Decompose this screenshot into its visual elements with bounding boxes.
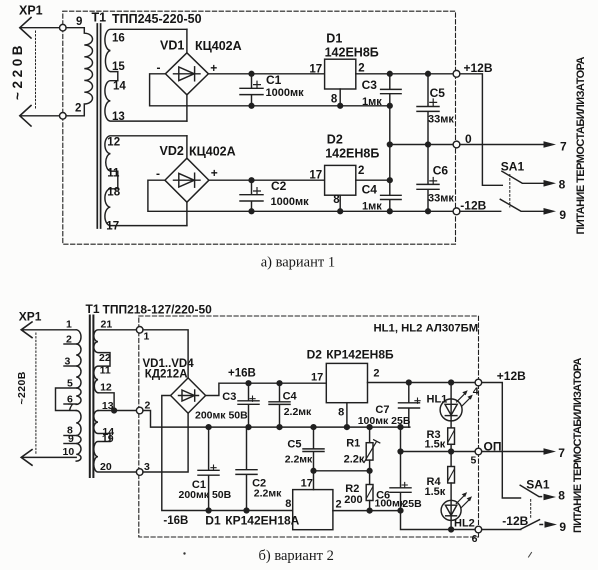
resistor R4 1.5к xyxy=(425,452,455,501)
capacitor C2 1000мк xyxy=(240,178,309,214)
regulator D2 КР142ЕН8Б (variant 2) xyxy=(307,348,394,419)
svg-text:HL1: HL1 xyxy=(427,393,448,405)
wire bridge plus to D1 xyxy=(208,73,324,75)
wire bridge minus to -12 rail xyxy=(148,180,453,211)
svg-text:-: - xyxy=(156,167,160,181)
svg-text:КЦ402А: КЦ402А xyxy=(189,145,236,159)
svg-text:25В: 25В xyxy=(402,498,422,510)
resistor R2 200 xyxy=(344,471,373,513)
capacitor C6 100мк 25В xyxy=(375,482,476,529)
wire D2 pin 8 down xyxy=(339,195,341,211)
wire node 1 to bridge top xyxy=(143,330,188,378)
svg-text:С2: С2 xyxy=(271,179,287,193)
jumper pin5 to pin7 xyxy=(56,388,77,411)
wire 12 to bridge top xyxy=(186,136,188,158)
svg-text:13: 13 xyxy=(102,400,114,412)
svg-text:100мк: 100мк xyxy=(375,498,406,510)
wire bridge minus to common A rail xyxy=(150,74,390,106)
wire bridge bottom to pin 13 xyxy=(186,95,188,121)
svg-text:C4: C4 xyxy=(283,390,298,402)
svg-text:ТПП218-127/220-50: ТПП218-127/220-50 xyxy=(103,303,213,317)
svg-text:20: 20 xyxy=(100,461,112,473)
capacitor C3 200мк 50В (variant 2) xyxy=(195,381,259,430)
svg-text:200мк 50В: 200мк 50В xyxy=(195,409,248,421)
svg-text:2: 2 xyxy=(145,399,151,411)
wire XP1 to node 2 xyxy=(21,115,60,117)
0 rail xyxy=(390,144,453,146)
svg-text:С3: С3 xyxy=(222,391,236,403)
svg-text:-: - xyxy=(157,60,161,74)
svg-text:VD2: VD2 xyxy=(160,144,184,158)
wire bridge plus to D2 xyxy=(209,179,325,181)
wire 16 to bridge top xyxy=(186,29,188,53)
T1 primary winding (variant 2) xyxy=(56,319,82,462)
svg-text:ПИТАНИЕ ТЕРМОСТАБИЛИЗАТОРА: ПИТАНИЕ ТЕРМОСТАБИЛИЗАТОРА xyxy=(575,57,587,235)
svg-text:1.5к: 1.5к xyxy=(425,439,446,451)
svg-text:4: 4 xyxy=(473,386,479,398)
regulator D2 142ЕН8Б xyxy=(309,133,379,206)
svg-text:1: 1 xyxy=(144,330,150,342)
svg-text:Т1: Т1 xyxy=(86,302,100,316)
svg-text:ХР1: ХР1 xyxy=(19,309,42,323)
svg-text:19: 19 xyxy=(102,433,114,445)
svg-text:б) вариант 2: б) вариант 2 xyxy=(259,548,334,564)
LED HL1 xyxy=(427,380,473,421)
capacitor C3 1мк xyxy=(362,74,402,108)
connector XP1 xyxy=(10,4,43,127)
capacitor C5 33мк xyxy=(417,71,454,147)
capacitor C4 1мк xyxy=(362,183,402,213)
svg-text:D2: D2 xyxy=(307,348,323,362)
ОП rail xyxy=(401,451,544,453)
output node 4 (+12В) xyxy=(475,379,482,386)
wire bridge plus to +16 line xyxy=(206,383,327,395)
svg-text:SA1: SA1 xyxy=(526,478,550,492)
svg-text:VD1: VD1 xyxy=(160,38,184,52)
regulator D1 КР142ЕН18А (variant 2) xyxy=(205,478,341,530)
output node 0 xyxy=(453,141,460,148)
svg-text:10: 10 xyxy=(63,446,75,458)
svg-text:-16В: -16В xyxy=(163,515,188,527)
svg-text:SA1: SA1 xyxy=(501,160,525,174)
svg-text:11: 11 xyxy=(100,364,111,376)
node 3 xyxy=(136,469,143,476)
svg-text:2: 2 xyxy=(336,499,342,511)
svg-text:17: 17 xyxy=(309,170,322,182)
svg-text:Т1: Т1 xyxy=(92,11,107,25)
svg-text:2: 2 xyxy=(358,63,364,75)
capacitor C7 100мк 25В xyxy=(358,380,420,427)
svg-text:3: 3 xyxy=(144,461,150,473)
svg-text:15: 15 xyxy=(112,61,125,73)
wire XP1 to pin 10 xyxy=(22,456,76,458)
svg-text:100мк 25В: 100мк 25В xyxy=(358,415,411,427)
svg-text:12: 12 xyxy=(100,382,112,394)
svg-text:12: 12 xyxy=(107,136,120,148)
svg-text:200мк 50В: 200мк 50В xyxy=(179,489,232,501)
wire D1 pin 8 down xyxy=(339,89,341,106)
svg-text:16: 16 xyxy=(112,33,125,45)
output node +12В xyxy=(453,70,460,77)
stray dot xyxy=(183,552,185,554)
svg-text:а) вариант 1: а) вариант 1 xyxy=(261,255,335,271)
svg-text:2.2мк: 2.2мк xyxy=(285,453,313,465)
svg-text:С3: С3 xyxy=(362,78,378,92)
svg-text:+: + xyxy=(211,166,218,180)
svg-text:HL1, HL2 АЛ307БМ: HL1, HL2 АЛ307БМ xyxy=(374,322,479,334)
svg-text:7: 7 xyxy=(68,402,74,414)
svg-text:+12В: +12В xyxy=(497,369,526,383)
svg-text:21: 21 xyxy=(101,319,113,331)
svg-text:R1: R1 xyxy=(346,438,360,450)
svg-text:200: 200 xyxy=(344,494,362,506)
svg-text:R2: R2 xyxy=(345,483,359,495)
T1 secondary winding (variant 2) xyxy=(94,319,137,474)
wire XP1 to pin 1 xyxy=(22,329,76,331)
resistor R3 1.5к xyxy=(425,421,455,454)
svg-text:8: 8 xyxy=(559,177,566,191)
svg-text:C4: C4 xyxy=(362,183,378,197)
svg-text:КР142ЕН8Б: КР142ЕН8Б xyxy=(326,348,394,362)
LED HL2 xyxy=(441,492,475,532)
svg-text:2.2мк: 2.2мк xyxy=(284,406,312,418)
svg-text:D1: D1 xyxy=(205,514,221,528)
wire D2 pin 2 xyxy=(356,179,390,181)
wire D2 pin 2 = +12 line xyxy=(368,382,476,384)
svg-text:-12В: -12В xyxy=(460,198,486,212)
svg-text:ОП: ОП xyxy=(484,439,502,453)
svg-text:D1: D1 xyxy=(326,32,342,46)
T1 secondary winding 12-11 / 18-17 xyxy=(105,136,187,233)
svg-text:+16В: +16В xyxy=(228,367,256,379)
svg-text:С5: С5 xyxy=(430,86,446,100)
svg-text:17: 17 xyxy=(309,64,322,76)
svg-text:КР142ЕН18А: КР142ЕН18А xyxy=(225,514,299,528)
wire bridge minus to -16 rail xyxy=(162,396,293,511)
svg-text:+12В: +12В xyxy=(464,61,493,75)
capacitor C1 1000мк xyxy=(240,71,304,108)
svg-text:КД212А: КД212А xyxy=(145,369,188,381)
svg-text:КЦ402А: КЦ402А xyxy=(195,39,242,53)
wire -12 to switch contact b xyxy=(460,210,501,212)
svg-text:7: 7 xyxy=(560,140,567,154)
node 9 (terminal circle) xyxy=(60,24,67,31)
svg-text:33мк: 33мк xyxy=(428,114,454,126)
connector XP1 (variant 2) xyxy=(16,309,42,465)
wire node 3 to bridge bottom xyxy=(143,413,188,472)
svg-text:8: 8 xyxy=(331,94,338,106)
wire D1 pin 2 to +12 rail xyxy=(356,73,453,75)
svg-text:9: 9 xyxy=(76,16,82,28)
wire 0 to output 7 xyxy=(460,144,543,146)
svg-text:5: 5 xyxy=(67,377,73,389)
node 1 xyxy=(136,327,143,334)
svg-text:8: 8 xyxy=(558,489,565,503)
svg-text:1мк: 1мк xyxy=(362,96,382,108)
svg-text:9: 9 xyxy=(68,433,74,445)
svg-text:1000мк: 1000мк xyxy=(271,196,310,208)
svg-text:~220В: ~220В xyxy=(10,42,25,100)
svg-text:С6: С6 xyxy=(433,164,449,178)
svg-text:33мк: 33мк xyxy=(428,193,454,205)
regulator D1 142ЕН8Б xyxy=(309,32,378,106)
svg-text:8: 8 xyxy=(338,407,344,419)
output node 6 (-12В) xyxy=(475,526,482,533)
svg-text:1мк: 1мк xyxy=(362,200,382,212)
svg-text:18: 18 xyxy=(107,187,120,199)
svg-text:2: 2 xyxy=(358,165,364,177)
svg-text:D2: D2 xyxy=(327,133,343,147)
wire D1 pin 2 xyxy=(333,510,401,512)
output node 5 (ОП) xyxy=(475,448,482,455)
svg-text:22: 22 xyxy=(99,352,111,364)
T1 primary winding xyxy=(66,28,92,116)
svg-text:С1: С1 xyxy=(266,73,282,87)
switch SA1 mechanical link (variant 2) xyxy=(530,500,532,519)
svg-text:9: 9 xyxy=(559,208,566,222)
wire -12 node 6 to switch contact b xyxy=(482,529,521,531)
T1 core (variant 2) xyxy=(89,316,91,478)
svg-text:8: 8 xyxy=(333,194,340,206)
svg-text:2: 2 xyxy=(373,368,379,380)
svg-text:2.2к: 2.2к xyxy=(344,453,365,465)
svg-text:8: 8 xyxy=(285,498,291,510)
wire D2 pin 8 down xyxy=(346,403,348,427)
svg-text:9: 9 xyxy=(559,520,566,534)
node 2 xyxy=(136,407,143,414)
capacitor C5 2.2мк (variant 2) xyxy=(285,425,324,471)
wire +12 node 4 to switch xyxy=(482,383,521,499)
svg-text:1000мк: 1000мк xyxy=(266,87,305,99)
svg-text:17: 17 xyxy=(106,221,119,233)
node 2 (terminal circle) xyxy=(60,113,67,120)
svg-text:3: 3 xyxy=(65,356,71,368)
svg-text:ТПП245-220-50: ТПП245-220-50 xyxy=(112,12,202,26)
wire node 2 to common rail xyxy=(143,411,410,428)
svg-text:5: 5 xyxy=(471,454,477,466)
svg-text:2.2мк: 2.2мк xyxy=(254,488,282,500)
switch SA1 mechanical link xyxy=(509,175,511,208)
svg-text:142ЕН8Б: 142ЕН8Б xyxy=(325,147,379,161)
svg-text:142ЕН8Б: 142ЕН8Б xyxy=(325,45,379,59)
svg-text:1: 1 xyxy=(66,319,72,331)
wire bridge bottom to pin 17 xyxy=(186,202,188,225)
svg-text:17: 17 xyxy=(301,478,313,490)
wire XP1 to node 9 xyxy=(21,27,60,29)
svg-text:C5: C5 xyxy=(287,439,301,451)
rectifier bridge VD1 КЦ402А xyxy=(157,38,242,95)
svg-text:ПИТАНИЕ ТЕРМОСТАБИЛИЗАТОРА: ПИТАНИЕ ТЕРМОСТАБИЛИЗАТОРА xyxy=(572,358,584,533)
svg-text:1.5к: 1.5к xyxy=(425,486,446,498)
vertical bus ОП/C6/-12 xyxy=(400,427,402,488)
dashed enclosure variant 1 xyxy=(63,11,456,244)
svg-text:-12В: -12В xyxy=(502,514,528,528)
svg-text:6: 6 xyxy=(472,533,478,545)
svg-text:17: 17 xyxy=(311,372,323,384)
svg-text:2: 2 xyxy=(75,103,81,115)
capacitor C1 200мк 50В (variant 2) xyxy=(179,425,232,513)
T1 secondary winding 16-15 / 14-13 xyxy=(105,29,187,123)
capacitor C4 2.2мк (variant 2) xyxy=(269,381,312,430)
svg-text:7: 7 xyxy=(558,446,565,460)
wire +12 to switch xyxy=(460,74,502,186)
T1 core xyxy=(96,24,98,228)
svg-text:13: 13 xyxy=(112,111,125,123)
vertical bus xyxy=(389,94,391,196)
rectifier bridge VD2 КЦ402А xyxy=(156,144,236,202)
rectifier bridge VD1..VD4 КД212А xyxy=(143,358,206,413)
output node -12В xyxy=(453,208,460,215)
dashed enclosure variant 2 xyxy=(139,316,479,537)
svg-text:ХР1: ХР1 xyxy=(19,4,43,18)
capacitor C2 2.2мк (variant 2) xyxy=(236,427,282,513)
wire R1 bottom to C5/pin17 node xyxy=(314,470,370,472)
wire C5 node to D1 pin 17 xyxy=(313,471,315,490)
svg-text:14: 14 xyxy=(113,81,126,93)
svg-text:11: 11 xyxy=(107,168,120,180)
capacitor C6 33мк xyxy=(417,145,454,214)
svg-text:HL2: HL2 xyxy=(454,518,475,530)
resistor R1 2.2к (trimmer) xyxy=(344,425,380,471)
svg-text:2: 2 xyxy=(66,334,72,346)
svg-text:~220В: ~220В xyxy=(16,371,28,404)
